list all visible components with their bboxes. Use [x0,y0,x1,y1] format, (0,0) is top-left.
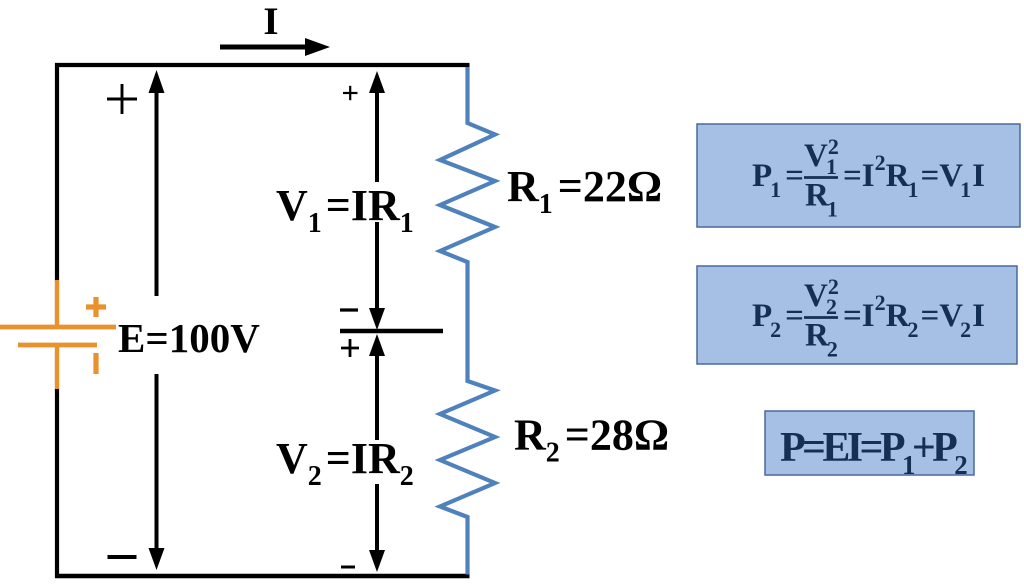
svg-text:1: 1 [826,154,837,179]
wire left upper [55,63,59,281]
plus sign (V2 top) [341,339,359,357]
wire top [55,63,470,67]
node junction line [340,329,443,333]
battery E (orange source) [0,280,116,389]
minus sign (E bottom) [108,555,137,559]
plus sign (V1 top) [343,86,358,100]
minus sign (V1 bottom) [340,308,358,311]
formula box P1 [697,124,1020,227]
wire bottom [55,574,470,579]
formula box P2 [697,266,1017,364]
V2 voltage arrow [369,334,385,572]
svg-text:E=100V: E=100V [118,315,260,361]
svg-text:I: I [263,0,278,43]
minus sign (V2 bottom) [341,566,355,569]
formula box P total [765,411,974,480]
svg-text:2: 2 [826,294,837,319]
wire left lower [55,388,59,578]
plus sign (E top) [107,84,137,114]
wire right (blue) with resistors [440,67,495,575]
V1 voltage arrow [369,71,385,330]
E voltage arrow [149,70,165,570]
current arrow I [220,38,330,56]
